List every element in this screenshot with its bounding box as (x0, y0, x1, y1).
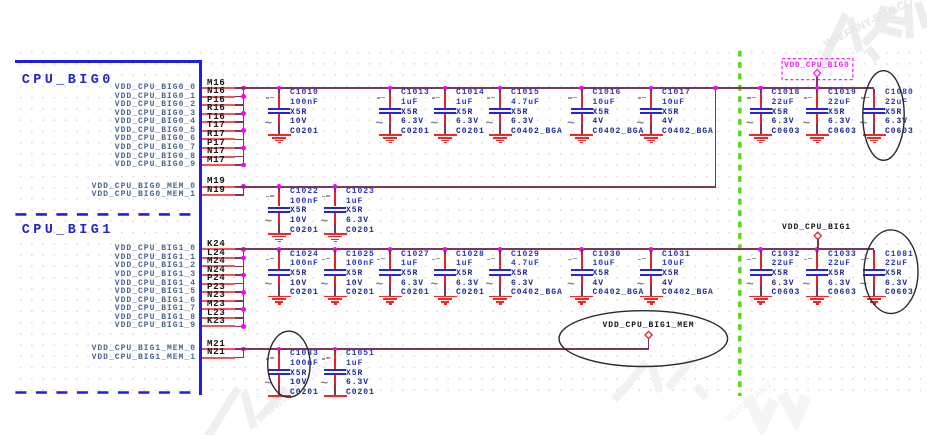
pin P16 wire stub (202, 104, 235, 106)
pin number N17 (207, 147, 226, 156)
pin number N16 (207, 87, 226, 96)
pin number P24 (207, 274, 226, 283)
pin M21 wire stub (202, 348, 235, 350)
designator label C1033 (828, 251, 857, 259)
designator label C1030 (593, 251, 622, 259)
node VDD_CPU_BIG0_MEM_0 pin name (66, 183, 196, 191)
wire (235, 266, 244, 268)
pin N21 wire stub (202, 357, 235, 359)
value label 6.3V (828, 280, 851, 288)
junction (241, 347, 246, 352)
annotation ellipse around C1083 (268, 331, 310, 397)
value label 4V (662, 280, 674, 288)
junction (241, 94, 246, 99)
designator label C1014 (456, 89, 485, 97)
ground (0, 0, 1, 1)
annotation ellipse around C1081 (864, 230, 918, 314)
node VDD_CPU_BIG1_4 pin name (66, 280, 196, 288)
wire pin riser (243, 348, 245, 358)
value label 6.3V (511, 118, 534, 126)
node VDD_CPU_BIG1_3 pin name (66, 271, 196, 279)
node VDD_CPU_BIG0_3 pin name (66, 110, 196, 118)
designator label C1015 (511, 89, 540, 97)
capacitor C1033 (0, 0, 1, 1)
value label X5R (511, 270, 528, 278)
wire (235, 300, 244, 302)
value label X5R (346, 270, 363, 278)
value label X5R (885, 109, 902, 117)
wire (235, 357, 244, 359)
designator label C1022 (290, 188, 319, 196)
net label VDD_CPU_BIG0 (784, 62, 849, 70)
watermark url text top right (822, 0, 915, 51)
capacitor C1030 (0, 0, 1, 1)
capacitor C1051 (0, 0, 1, 1)
value label 10uF (662, 99, 685, 107)
designator label C1032 (772, 251, 801, 259)
wire bus VDD_CPU_BIG1_MEM (235, 348, 648, 350)
value label C0201 (290, 389, 319, 397)
capacitor C1018 (0, 0, 1, 1)
node VDD_CPU_BIG1_MEM_0 pin name (66, 345, 196, 353)
designator label C1027 (401, 251, 430, 259)
watermark bottom left (202, 388, 286, 435)
node VDD_CPU_BIG0_0 pin name (66, 84, 196, 92)
junction (241, 86, 246, 91)
net label VDD_CPU_BIG1_MEM (603, 322, 695, 330)
value label 22uF (885, 99, 908, 107)
designator label C1010 (290, 89, 319, 97)
node VDD_CPU_BIG1_0 pin name (66, 245, 196, 253)
junction (241, 256, 246, 261)
value label X5R (772, 270, 789, 278)
value label X5R (662, 270, 679, 278)
pin number P17 (207, 139, 226, 148)
ground (0, 0, 1, 1)
wire (235, 96, 244, 98)
value label X5R (511, 109, 528, 117)
ground (0, 0, 1, 1)
value label C0201 (346, 389, 375, 397)
pin K24 wire stub (202, 248, 235, 250)
junction (241, 307, 246, 312)
annotation ellipse around C1080 (863, 71, 904, 161)
value label 4.7uF (511, 260, 540, 268)
node VDD_CPU_BIG0_MEM_1 pin name (66, 191, 196, 199)
junction (241, 163, 246, 168)
value label 6.3V (511, 280, 534, 288)
value label 6.3V (828, 118, 851, 126)
pin number R16 (207, 104, 226, 113)
value label 100nF (290, 260, 319, 268)
block CPU_BIG1 title (22, 224, 114, 238)
capacitor C1010 (0, 0, 1, 1)
node VDD_CPU_BIG0_9 pin name (66, 161, 196, 169)
designator label C1025 (346, 251, 375, 259)
value label X5R (401, 270, 418, 278)
value label 1uF (401, 99, 418, 107)
value label 1uF (456, 260, 473, 268)
value label 4.7uF (511, 99, 540, 107)
ground (0, 0, 1, 1)
pin number N21 (207, 348, 226, 357)
capacitor C1019 (0, 0, 1, 1)
ground (0, 0, 1, 1)
pin M24 wire stub (202, 265, 235, 267)
value label 1uF (456, 99, 473, 107)
ground (0, 0, 1, 1)
pin number R17 (207, 130, 226, 139)
wire pin riser (243, 87, 245, 166)
ground (0, 0, 1, 1)
designator label C1024 (290, 251, 319, 259)
capacitor C1022 (0, 0, 1, 1)
pin L24 wire stub (202, 257, 235, 259)
capacitor C1023 (0, 0, 1, 1)
node VDD_CPU_BIG0_7 pin name (66, 144, 196, 152)
value label 100nF (290, 198, 319, 206)
value label C0402_BGA (511, 128, 563, 136)
node VDD_CPU_BIG1_2 pin name (66, 262, 196, 270)
ground (0, 0, 1, 1)
hierarchical block CPU_BIG0 top border (15, 60, 202, 63)
value label C0603 (828, 128, 857, 136)
value label 22uF (772, 260, 795, 268)
wire (235, 283, 244, 285)
node VDD_CPU_BIG1_8 pin name (66, 314, 196, 322)
capacitor C1083 (0, 0, 1, 1)
value label 4V (593, 280, 605, 288)
designator label C1023 (346, 188, 375, 196)
value label C0402_BGA (511, 289, 563, 297)
value label X5R (346, 207, 363, 215)
wire bus VDD_CPU_BIG0_MEM (235, 186, 715, 188)
capacitor C1028 (0, 0, 1, 1)
value label 1uF (401, 260, 418, 268)
pin K23 wire stub (202, 325, 235, 327)
value label 10uF (662, 260, 685, 268)
value label X5R (662, 109, 679, 117)
value label 10V (290, 217, 307, 225)
designator label C1080 (885, 89, 914, 97)
value label 4V (593, 118, 605, 126)
junction (713, 86, 718, 91)
pin number N23 (207, 291, 226, 300)
ground (0, 0, 1, 1)
wire vertical return to main bus (715, 88, 717, 188)
value label X5R (456, 109, 473, 117)
value label C0201 (401, 289, 430, 297)
ground (0, 0, 1, 1)
wire (235, 274, 244, 276)
ground (0, 0, 1, 1)
node VDD_CPU_BIG1_9 pin name (66, 322, 196, 330)
value label 6.3V (772, 118, 795, 126)
pin number L24 (207, 249, 226, 258)
node VDD_CPU_BIG0_4 pin name (66, 118, 196, 126)
value label 22uF (828, 99, 851, 107)
value label 100nF (346, 260, 375, 268)
capacitor C1025 (0, 0, 1, 1)
wire power tap VDD_CPU_BIG0 (816, 77, 818, 88)
wire bus VDD_CPU_BIG1 (235, 248, 874, 250)
value label C0201 (346, 289, 375, 297)
value label X5R (290, 370, 307, 378)
value label C0402_BGA (593, 128, 645, 136)
node VDD_CPU_BIG1_6 pin name (66, 297, 196, 305)
junction (241, 324, 246, 329)
value label C0201 (290, 227, 319, 235)
value label X5R (290, 270, 307, 278)
value label X5R (346, 370, 363, 378)
designator label C1017 (662, 89, 691, 97)
value label X5R (593, 270, 610, 278)
wire pin riser (243, 248, 245, 327)
pin P24 wire stub (202, 283, 235, 285)
capacitor C1081 (0, 0, 1, 1)
value label X5R (885, 270, 902, 278)
pin number M16 (207, 79, 226, 88)
pin number K24 (207, 240, 226, 249)
page boundary green dashed line (738, 51, 741, 396)
wire (235, 326, 244, 328)
value label 6.3V (885, 118, 908, 126)
capacitor C1032 (0, 0, 1, 1)
value label 6.3V (346, 217, 369, 225)
ground (0, 0, 1, 1)
value label 22uF (885, 260, 908, 268)
designator label C1083 (290, 350, 319, 358)
pin number M21 (207, 340, 226, 349)
capacitor C1080 (0, 0, 1, 1)
wire (235, 139, 244, 141)
value label 22uF (828, 260, 851, 268)
designator label C1031 (662, 251, 691, 259)
pin number T16 (207, 113, 226, 122)
pin number K23 (207, 317, 226, 326)
wire (235, 104, 244, 106)
power symbol VDD_CPU_BIG1 diamond (814, 232, 821, 239)
ground (0, 0, 1, 1)
designator label C1016 (593, 89, 622, 97)
junction (815, 86, 820, 91)
value label C0603 (828, 289, 857, 297)
value label 6.3V (456, 118, 479, 126)
pin L23 wire stub (202, 317, 235, 319)
value label X5R (828, 109, 845, 117)
ground (0, 0, 1, 1)
wire (235, 130, 244, 132)
hierarchical block right border (199, 60, 202, 396)
wire (235, 147, 244, 149)
pin M19 wire stub (202, 186, 235, 188)
junction (241, 111, 246, 116)
junction (241, 184, 246, 189)
pin number M23 (207, 300, 226, 309)
pin T16 wire stub (202, 121, 235, 123)
value label C0201 (456, 128, 485, 136)
node VDD_CPU_BIG0_2 pin name (66, 101, 196, 109)
junction (241, 146, 246, 151)
watermark url text bottom (264, 341, 353, 418)
designator label C1029 (511, 251, 540, 259)
wire (235, 121, 244, 123)
junction (241, 273, 246, 278)
value label X5R (456, 270, 473, 278)
wire pin riser (243, 186, 245, 196)
value label 10V (346, 280, 363, 288)
junction (241, 290, 246, 295)
value label 22uF (772, 99, 795, 107)
value label X5R (401, 109, 418, 117)
pin T17 wire stub (202, 130, 235, 132)
value label 4V (662, 118, 674, 126)
value label 6.3V (401, 118, 424, 126)
value label C0603 (885, 128, 914, 136)
pin N24 wire stub (202, 274, 235, 276)
value label C0201 (456, 289, 485, 297)
value label 10V (290, 379, 307, 387)
wire (235, 156, 244, 158)
value label C0603 (772, 128, 801, 136)
pin M23 wire stub (202, 308, 235, 310)
designator label C1081 (885, 251, 914, 259)
node VDD_CPU_BIG1_1 pin name (66, 254, 196, 262)
value label C0201 (290, 289, 319, 297)
pin N17 wire stub (202, 156, 235, 158)
value label 1uF (346, 360, 363, 368)
pin number M17 (207, 156, 226, 165)
value label C0603 (885, 289, 914, 297)
pin R17 wire stub (202, 138, 235, 140)
value label 6.3V (456, 280, 479, 288)
capacitor C1031 (0, 0, 1, 1)
ground (0, 0, 1, 1)
pin number M19 (207, 177, 226, 186)
watermark bottom right (614, 360, 706, 400)
value label X5R (290, 109, 307, 117)
value label C0402_BGA (662, 128, 714, 136)
designator label C1019 (828, 89, 857, 97)
capacitor C1016 (0, 0, 1, 1)
node VDD_CPU_BIG0_1 pin name (66, 93, 196, 101)
value label 6.3V (885, 280, 908, 288)
node VDD_CPU_BIG0_5 pin name (66, 127, 196, 135)
block CPU_BIG0 title (22, 74, 114, 88)
ground (0, 0, 1, 1)
pin number N24 (207, 266, 226, 275)
value label 10uF (593, 99, 616, 107)
value label C0402_BGA (662, 289, 714, 297)
ground (0, 0, 1, 1)
designator label C1013 (401, 89, 430, 97)
value label C0201 (290, 128, 319, 136)
grid background (decorative) (15, 47, 921, 397)
value label 1uF (346, 198, 363, 206)
designator label C1051 (346, 350, 375, 358)
value label C0603 (772, 289, 801, 297)
junction (241, 128, 246, 133)
pin number P16 (207, 96, 226, 105)
ground (0, 0, 1, 1)
pin number M24 (207, 257, 226, 266)
pin M17 wire stub (202, 164, 235, 166)
designator label C1018 (772, 89, 801, 97)
value label 10V (290, 118, 307, 126)
pin number N19 (207, 186, 226, 195)
wire bus VDD_CPU_BIG0 (235, 87, 874, 89)
annotation ellipse around VDD_CPU_BIG1_MEM (559, 311, 728, 367)
value label C0201 (346, 227, 375, 235)
wire (235, 291, 244, 293)
designator label C1028 (456, 251, 485, 259)
value label 6.3V (772, 280, 795, 288)
ground (0, 0, 1, 1)
value label X5R (772, 109, 789, 117)
pin P17 wire stub (202, 147, 235, 149)
wire (235, 194, 244, 196)
pin N16 wire stub (202, 96, 235, 98)
capacitor C1017 (0, 0, 1, 1)
node VDD_CPU_BIG0_6 pin name (66, 135, 196, 143)
value label 10uF (593, 260, 616, 268)
net label VDD_CPU_BIG1 (782, 224, 851, 232)
ground (0, 0, 1, 1)
value label 100nF (290, 360, 319, 368)
wire power tap VDD_CPU_BIG1_MEM (648, 339, 650, 349)
wire power tap VDD_CPU_BIG1 (817, 239, 819, 249)
value label C0201 (401, 128, 430, 136)
node VDD_CPU_BIG1_5 pin name (66, 288, 196, 296)
wire (235, 317, 244, 319)
block CPU_BIG1 bottom dashed edge (15, 391, 192, 394)
capacitor C1014 (0, 0, 1, 1)
wire (235, 164, 244, 166)
pin R16 wire stub (202, 113, 235, 115)
value label X5R (828, 270, 845, 278)
ground (0, 0, 1, 1)
value label 100nF (290, 99, 319, 107)
pin N23 wire stub (202, 300, 235, 302)
value label 10V (290, 280, 307, 288)
pin number P23 (207, 283, 226, 292)
capacitor C1029 (0, 0, 1, 1)
node VDD_CPU_BIG1_7 pin name (66, 305, 196, 313)
value label 6.3V (346, 379, 369, 387)
pin number L23 (207, 309, 226, 318)
value label X5R (593, 109, 610, 117)
node VDD_CPU_BIG0_8 pin name (66, 153, 196, 161)
ground (0, 0, 1, 1)
pin N19 wire stub (202, 194, 235, 196)
wire (235, 113, 244, 115)
wire (235, 257, 244, 259)
wire (235, 308, 244, 310)
capacitor C1024 (0, 0, 1, 1)
pin P23 wire stub (202, 291, 235, 293)
capacitor C1015 (0, 0, 1, 1)
capacitor C1013 (0, 0, 1, 1)
value label 6.3V (401, 280, 424, 288)
node VDD_CPU_BIG1_MEM_1 pin name (66, 354, 196, 362)
pin M16 wire stub (202, 87, 235, 89)
power symbol VDD_CPU_BIG1_MEM diamond (645, 331, 652, 338)
value label C0402_BGA (593, 289, 645, 297)
ground (0, 0, 1, 1)
pin number T17 (207, 121, 226, 130)
junction (241, 247, 246, 252)
value label X5R (290, 207, 307, 215)
